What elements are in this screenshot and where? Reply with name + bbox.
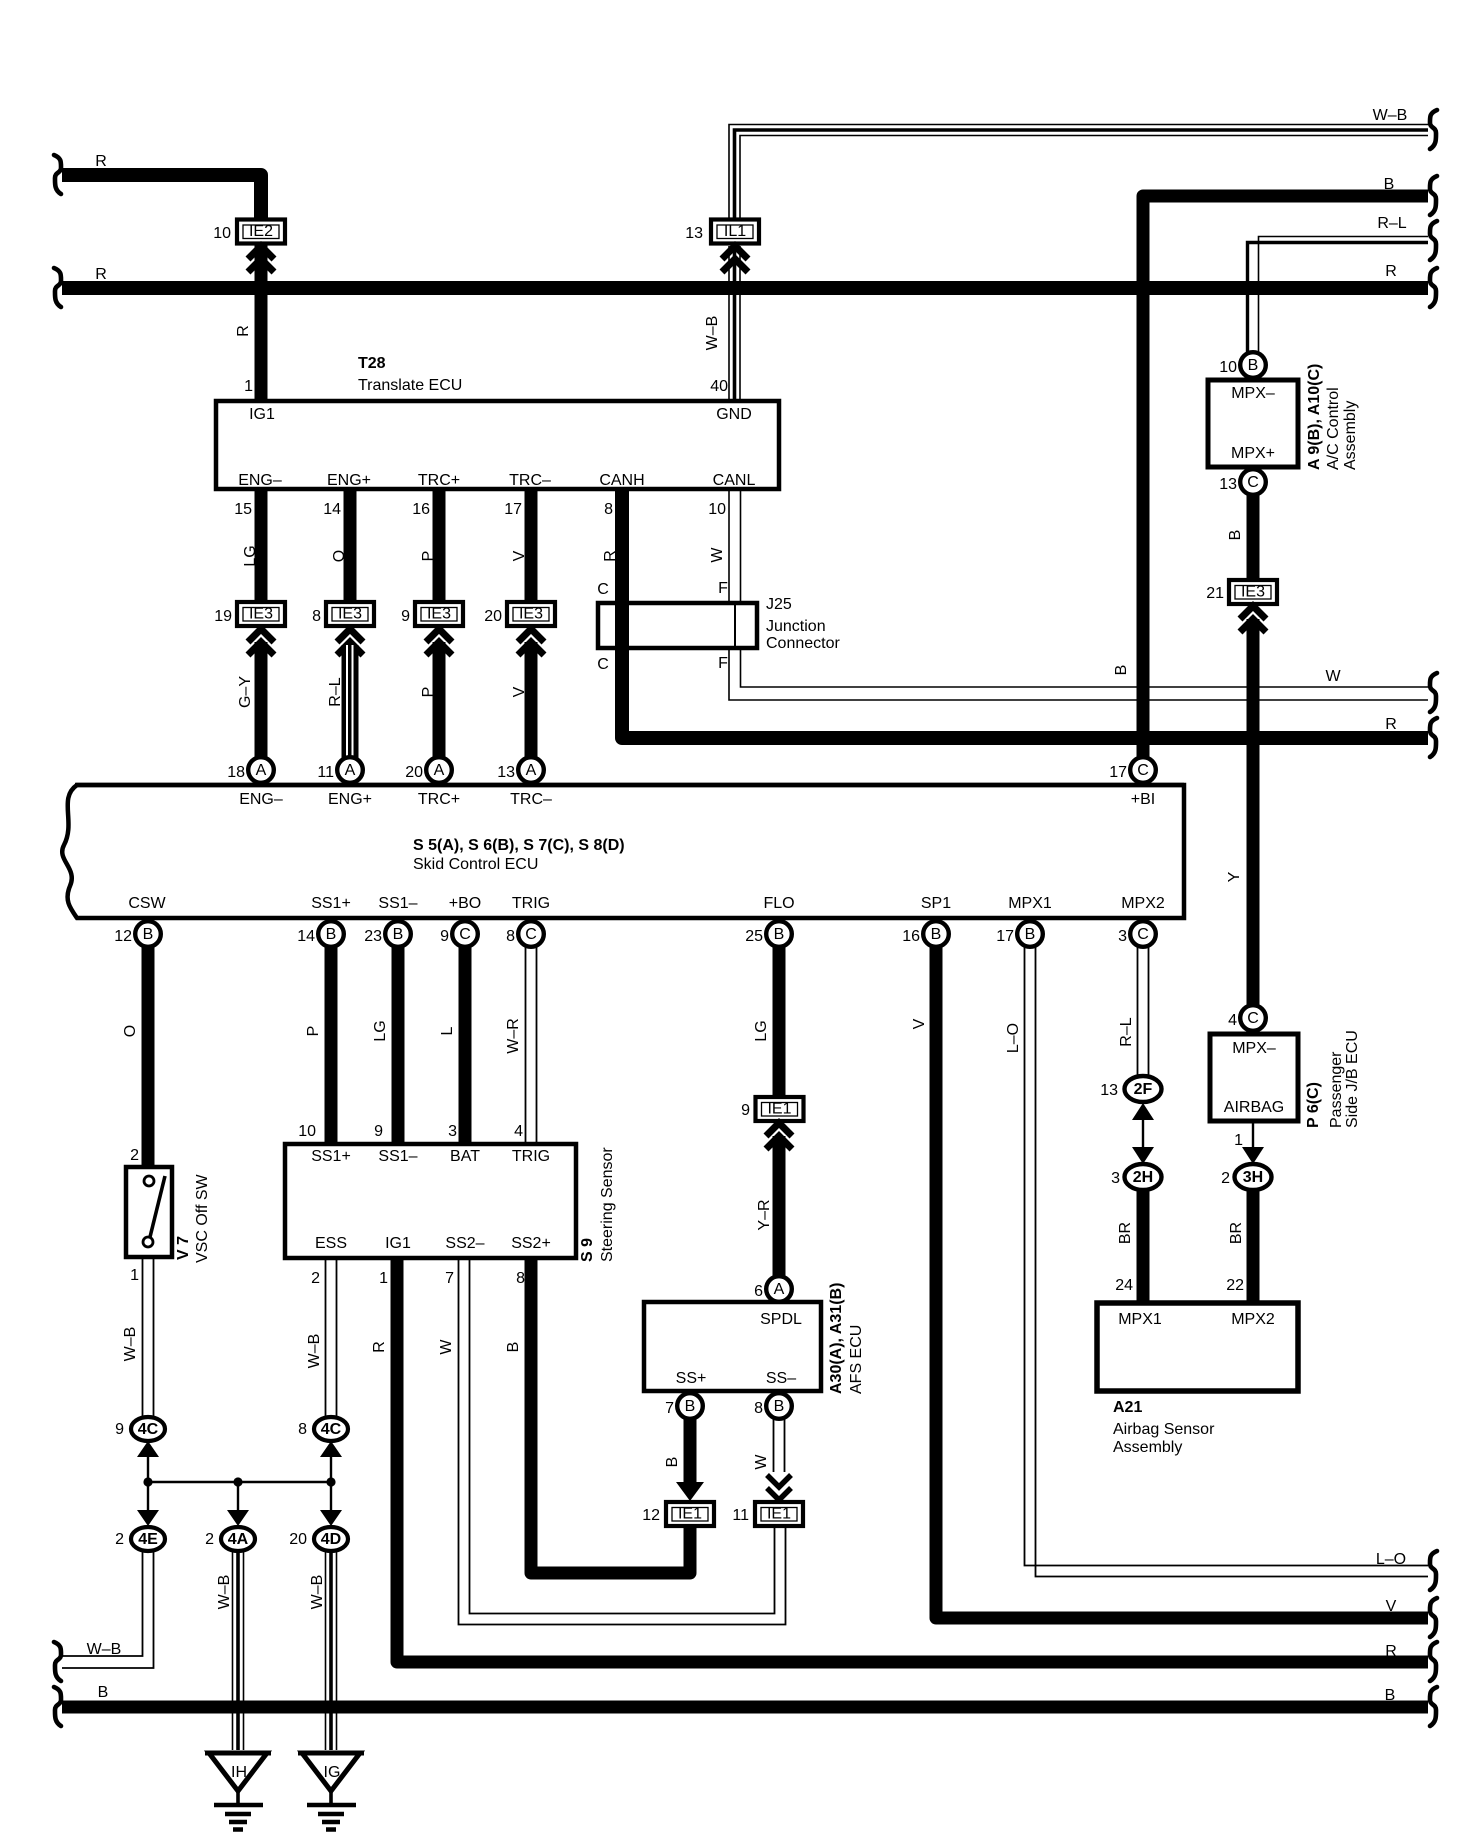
- arrow up into 4C-8: [320, 1441, 342, 1457]
- svg-text:B: B: [1384, 176, 1395, 193]
- svg-text:TRC+: TRC+: [418, 791, 460, 808]
- wire stub 2F to 2H: [1142, 1112, 1144, 1152]
- svg-text:4C: 4C: [321, 1421, 342, 1438]
- svg-text:4C: 4C: [138, 1421, 159, 1438]
- svg-text:9: 9: [440, 928, 449, 945]
- svg-text:2: 2: [1221, 1170, 1230, 1187]
- svg-text:Assembly: Assembly: [1113, 1439, 1182, 1456]
- svg-text:P: P: [305, 1026, 322, 1037]
- svg-text:C: C: [597, 656, 609, 673]
- svg-text:B: B: [1227, 530, 1244, 541]
- svg-text:Junction: Junction: [766, 618, 826, 635]
- wire stub 4C-8 to junction: [330, 1450, 332, 1482]
- svg-text:G–Y: G–Y: [237, 676, 254, 708]
- svg-text:V: V: [511, 686, 528, 697]
- brace right end W-B: [1430, 110, 1437, 149]
- brace right end R bottom: [1430, 1642, 1437, 1681]
- stub down to 4E: [147, 1482, 149, 1516]
- svg-text:MPX2: MPX2: [1231, 1311, 1275, 1328]
- ellipse connector 3 2H: [1111, 1164, 1161, 1190]
- wire B from A/C 13C to IE3 21: [1247, 495, 1260, 579]
- svg-text:1: 1: [130, 1267, 139, 1284]
- circle pin 18 A ENG-: [227, 757, 274, 783]
- circle pin 8 B SS-: [754, 1393, 792, 1419]
- svg-text:SS2+: SS2+: [511, 1235, 551, 1252]
- svg-text:Skid Control ECU: Skid Control ECU: [413, 856, 538, 873]
- A21 Airbag Sensor Assembly box: [1097, 1303, 1298, 1456]
- svg-text:4: 4: [514, 1123, 523, 1140]
- svg-text:12: 12: [114, 928, 132, 945]
- svg-text:R: R: [95, 153, 107, 170]
- svg-text:L–O: L–O: [1376, 1551, 1406, 1568]
- svg-text:B: B: [774, 1398, 785, 1415]
- svg-text:15: 15: [234, 501, 252, 518]
- svg-text:C: C: [597, 581, 609, 598]
- svg-text:LG: LG: [242, 545, 259, 566]
- svg-text:SS1+: SS1+: [311, 895, 351, 912]
- svg-text:CANH: CANH: [599, 472, 644, 489]
- wire L-O double MPX1 to right edge: [1025, 947, 1429, 1577]
- svg-text:LG: LG: [372, 1020, 389, 1041]
- brace right end R-L: [1430, 221, 1437, 260]
- svg-text:W–B: W–B: [309, 1575, 326, 1610]
- svg-text:W–B: W–B: [216, 1575, 233, 1610]
- svg-text:R–L: R–L: [1118, 1017, 1135, 1046]
- wire W-B double from 4E to left edge: [62, 1551, 154, 1668]
- svg-text:R–L: R–L: [1377, 215, 1406, 232]
- svg-text:P: P: [420, 551, 437, 562]
- svg-text:IH: IH: [231, 1764, 247, 1781]
- svg-text:O: O: [331, 550, 348, 562]
- wire stub 4C-9 to junction: [147, 1450, 149, 1482]
- svg-text:ESS: ESS: [315, 1235, 347, 1252]
- svg-text:B: B: [1385, 1687, 1396, 1704]
- svg-text:C: C: [1137, 762, 1149, 779]
- svg-text:14: 14: [323, 501, 341, 518]
- svg-text:Y–R: Y–R: [756, 1199, 773, 1230]
- svg-text:1: 1: [1234, 1132, 1243, 1149]
- circle pin 13 C A/C MPX+: [1219, 469, 1266, 495]
- svg-text:BR: BR: [1117, 1222, 1134, 1244]
- svg-text:8: 8: [754, 1400, 763, 1417]
- svg-text:TRIG: TRIG: [512, 1148, 550, 1165]
- svg-text:7: 7: [445, 1270, 454, 1287]
- svg-text:B: B: [685, 1398, 696, 1415]
- wire R from IE2 arrow to T28 pin 1: [255, 244, 268, 399]
- svg-text:IE3: IE3: [1241, 584, 1265, 601]
- wire R-L double MPX2 to 2F: [1138, 947, 1149, 1078]
- svg-text:SS1–: SS1–: [378, 895, 417, 912]
- svg-text:A/C Control: A/C Control: [1325, 387, 1342, 470]
- svg-text:B: B: [326, 926, 337, 943]
- svg-text:13: 13: [497, 764, 515, 781]
- svg-text:8: 8: [604, 501, 613, 518]
- wire LG ENG- T28 to IE3: [255, 489, 268, 602]
- svg-text:W: W: [1325, 668, 1341, 685]
- stub down to 4D: [330, 1482, 332, 1516]
- connector 9 IE1: [741, 1097, 803, 1121]
- wire W-B double ESS to 4C-8: [326, 1258, 337, 1417]
- svg-text:LG: LG: [753, 1020, 770, 1041]
- svg-text:C: C: [525, 926, 537, 943]
- wire W CANL double from J25 to right edge: [729, 648, 1428, 700]
- svg-text:8: 8: [506, 928, 515, 945]
- svg-text:IE1: IE1: [678, 1506, 702, 1523]
- junction wire horizontal: [148, 1481, 331, 1483]
- brace right end R CAN: [1430, 718, 1437, 757]
- svg-text:MPX1: MPX1: [1008, 895, 1052, 912]
- svg-text:B: B: [1113, 665, 1130, 676]
- svg-text:A21: A21: [1113, 1399, 1142, 1416]
- svg-text:O: O: [122, 1025, 139, 1037]
- connector 20 IE3 (TRC-): [484, 602, 555, 626]
- svg-text:ENG+: ENG+: [328, 791, 372, 808]
- svg-text:IG1: IG1: [249, 406, 275, 423]
- svg-text:R: R: [1385, 1643, 1397, 1660]
- junction dot right: [326, 1477, 335, 1486]
- svg-text:W: W: [753, 1454, 770, 1470]
- arrows into IE3 row: [248, 629, 274, 655]
- circle pin 20 A TRC+: [405, 757, 452, 783]
- connector 13 IL1: [685, 220, 759, 244]
- A/C Control Assembly box A9/A10: [1208, 364, 1359, 470]
- svg-text:B: B: [931, 926, 942, 943]
- ellipse connector 9 4C: [115, 1417, 165, 1441]
- brace right end L-O: [1430, 1551, 1437, 1590]
- ECU bottom circle 8 C TRIG: [506, 921, 544, 947]
- svg-text:BAT: BAT: [450, 1148, 480, 1165]
- svg-text:17: 17: [504, 501, 522, 518]
- svg-text:S 9: S 9: [579, 1238, 596, 1262]
- svg-text:8: 8: [298, 1421, 307, 1438]
- brace right end of R bus: [1430, 268, 1437, 307]
- wire V SP1 to right edge: [936, 947, 1428, 1618]
- svg-text:17: 17: [996, 928, 1014, 945]
- circle pin 10 B A/C MPX-: [1219, 352, 1266, 378]
- Skid Control ECU box S5-S8: [62, 785, 1184, 918]
- wire BR 3H to A21 MPX2: [1247, 1190, 1260, 1303]
- svg-text:Passenger: Passenger: [1328, 1051, 1345, 1128]
- wire W CANL double line T28 to J25: [729, 489, 741, 603]
- svg-text:A 9(B), A10(C): A 9(B), A10(C): [1306, 364, 1323, 470]
- circle pin 13 A TRC-: [497, 757, 544, 783]
- AFS ECU box A30/A31: [644, 1283, 865, 1394]
- svg-text:AIRBAG: AIRBAG: [1224, 1099, 1284, 1116]
- svg-text:3: 3: [1118, 928, 1127, 945]
- svg-text:SS1+: SS1+: [311, 1148, 351, 1165]
- svg-text:C: C: [459, 926, 471, 943]
- svg-text:ENG–: ENG–: [238, 472, 282, 489]
- svg-text:S 5(A), S 6(B), S 7(C), S 8(D): S 5(A), S 6(B), S 7(C), S 8(D): [413, 837, 625, 854]
- connector 8 IE3 (ENG+): [312, 602, 374, 626]
- svg-text:F: F: [718, 580, 728, 597]
- svg-text:2: 2: [311, 1270, 320, 1287]
- arrow down into 2H: [1132, 1147, 1154, 1164]
- svg-text:TRC–: TRC–: [509, 472, 551, 489]
- svg-text:4E: 4E: [138, 1531, 158, 1548]
- circle pin 4 C P6 MPX-: [1228, 1005, 1266, 1031]
- svg-text:T28: T28: [358, 355, 386, 372]
- svg-text:B: B: [1025, 926, 1036, 943]
- svg-text:IE3: IE3: [519, 606, 543, 623]
- wire B bus bottom: [62, 1701, 1428, 1714]
- wire W double SS2- to IE1 11: [459, 1258, 786, 1625]
- wire G-Y ENG- IE3 to circle 18A: [255, 642, 268, 758]
- svg-text:21: 21: [1206, 585, 1224, 602]
- arrow down into IE1 11: [767, 1475, 791, 1500]
- svg-text:SP1: SP1: [921, 895, 951, 912]
- wire W-B shielded 4D to ground IG: [326, 1551, 337, 1750]
- svg-text:IG1: IG1: [385, 1235, 411, 1252]
- wire O ENG+ T28 to IE3: [344, 489, 357, 602]
- wire Y-R IE1 9 to circle 6A: [773, 1136, 786, 1277]
- svg-text:16: 16: [412, 501, 430, 518]
- wire W-B shielded 4A to ground IH: [233, 1551, 244, 1750]
- svg-text:SS1–: SS1–: [378, 1148, 417, 1165]
- svg-text:W: W: [709, 547, 726, 563]
- svg-text:F: F: [718, 655, 728, 672]
- svg-text:ENG+: ENG+: [327, 472, 371, 489]
- svg-text:MPX+: MPX+: [1231, 445, 1275, 462]
- svg-text:CANL: CANL: [713, 472, 756, 489]
- svg-text:Side J/B ECU: Side J/B ECU: [1344, 1030, 1361, 1128]
- circle pin 11 A ENG+: [317, 757, 362, 783]
- T28 pin stubs: [255, 395, 268, 401]
- S9 Steering Sensor box: [285, 1144, 616, 1262]
- svg-text:A: A: [256, 762, 267, 779]
- svg-text:R: R: [371, 1341, 388, 1353]
- svg-text:1: 1: [244, 378, 253, 395]
- svg-text:9: 9: [741, 1102, 750, 1119]
- wire LG FLO to IE1 9: [773, 947, 786, 1098]
- wire L +BO to steering BAT: [459, 947, 472, 1144]
- svg-text:20: 20: [289, 1531, 307, 1548]
- svg-text:W: W: [438, 1339, 455, 1355]
- arrow down into 4A: [227, 1510, 249, 1526]
- svg-text:16: 16: [902, 928, 920, 945]
- svg-text:P 6(C): P 6(C): [1305, 1082, 1322, 1128]
- ECU bottom circle 17 B MPX1: [996, 921, 1043, 947]
- brace right end B: [1430, 176, 1437, 215]
- svg-text:IE3: IE3: [427, 606, 451, 623]
- svg-text:A: A: [774, 1281, 785, 1298]
- svg-text:13: 13: [685, 225, 703, 242]
- svg-text:24: 24: [1115, 1277, 1133, 1294]
- svg-text:V: V: [511, 550, 528, 561]
- svg-text:Y: Y: [1226, 871, 1243, 882]
- wire V TRC- IE3 to circle 13A: [525, 642, 538, 758]
- svg-text:R: R: [1385, 263, 1397, 280]
- brace left end of R bus: [54, 268, 61, 307]
- wire W-R double TRIG to steering: [526, 947, 537, 1144]
- connector 10 IE2: [213, 220, 285, 244]
- svg-text:+BI: +BI: [1131, 791, 1155, 808]
- svg-text:23: 23: [364, 928, 382, 945]
- junction dot middle: [233, 1477, 242, 1486]
- wire stub P6 to 3H: [1252, 1121, 1254, 1152]
- svg-text:CSW: CSW: [128, 895, 166, 912]
- wire LG SS1- to steering: [392, 947, 405, 1144]
- svg-text:W–B: W–B: [122, 1327, 139, 1362]
- svg-text:9: 9: [401, 608, 410, 625]
- brace right end B bus: [1430, 1687, 1437, 1726]
- circle pin 6 A SPDL: [754, 1276, 792, 1302]
- svg-text:B: B: [664, 1457, 681, 1468]
- wire P TRC+ IE3 to circle 20A: [433, 642, 446, 758]
- connector 9 IE3 (TRC+): [401, 602, 463, 626]
- svg-text:10: 10: [213, 225, 231, 242]
- arrow into IE2: [248, 246, 274, 272]
- wire P SS1+ to steering: [325, 947, 338, 1144]
- svg-text:8: 8: [312, 608, 321, 625]
- svg-text:4A: 4A: [228, 1531, 249, 1548]
- connector 21 IE3: [1206, 580, 1277, 604]
- svg-text:W–B: W–B: [306, 1334, 323, 1369]
- svg-text:P: P: [420, 687, 437, 698]
- svg-text:IL1: IL1: [724, 223, 746, 240]
- svg-text:W–B: W–B: [704, 316, 721, 351]
- V7 VSC Off SW box: [126, 1167, 211, 1263]
- arrow into IE3 21: [1240, 606, 1266, 632]
- arrow up into 4C-9: [137, 1441, 159, 1457]
- svg-text:40: 40: [710, 378, 728, 395]
- ellipse connector 2 4A: [205, 1527, 255, 1551]
- svg-text:L: L: [439, 1026, 456, 1035]
- svg-text:+BO: +BO: [449, 895, 481, 912]
- svg-text:10: 10: [298, 1123, 316, 1140]
- svg-text:A: A: [526, 762, 537, 779]
- svg-text:7: 7: [665, 1400, 674, 1417]
- svg-text:4D: 4D: [321, 1531, 341, 1548]
- svg-text:IE2: IE2: [249, 223, 273, 240]
- stub down to 4A: [237, 1482, 239, 1516]
- svg-text:3H: 3H: [1243, 1169, 1263, 1186]
- wire B SS2+ to IE1 12: [531, 1258, 690, 1573]
- svg-text:R: R: [1385, 716, 1397, 733]
- svg-text:R: R: [235, 325, 252, 337]
- svg-text:10: 10: [708, 501, 726, 518]
- circle pin 7 B SS+: [665, 1393, 703, 1419]
- svg-text:V: V: [1386, 1598, 1397, 1615]
- ECU bottom circle 14 B SS1+: [297, 921, 344, 947]
- svg-text:Steering Sensor: Steering Sensor: [599, 1147, 616, 1262]
- svg-text:3: 3: [448, 1123, 457, 1140]
- svg-text:IG: IG: [324, 1764, 341, 1781]
- svg-text:C: C: [1137, 926, 1149, 943]
- wire B top right to edge: [1143, 196, 1428, 760]
- svg-text:W–B: W–B: [1373, 107, 1408, 124]
- svg-text:GND: GND: [716, 406, 752, 423]
- svg-text:17: 17: [1109, 764, 1127, 781]
- arrow up into 2F: [1132, 1103, 1154, 1120]
- svg-text:TRIG: TRIG: [512, 895, 550, 912]
- wire W-B double V7 to 4C: [143, 1257, 154, 1417]
- wire R feed top-left to IE2: [62, 175, 261, 219]
- svg-text:9: 9: [374, 1123, 383, 1140]
- svg-text:13: 13: [1100, 1082, 1118, 1099]
- svg-text:AFS ECU: AFS ECU: [848, 1325, 865, 1394]
- svg-text:BR: BR: [1228, 1222, 1245, 1244]
- svg-text:TRC+: TRC+: [418, 472, 460, 489]
- svg-text:25: 25: [745, 928, 763, 945]
- brace left end B bus: [54, 1687, 61, 1726]
- svg-text:J25: J25: [766, 596, 792, 613]
- connector 12 IE1: [642, 1502, 714, 1526]
- arrow down into 4D: [320, 1510, 342, 1526]
- svg-text:IE3: IE3: [338, 606, 362, 623]
- svg-text:SS2–: SS2–: [445, 1235, 484, 1252]
- wire R bus horizontal: [62, 281, 1428, 295]
- svg-text:11: 11: [732, 1507, 749, 1524]
- wire P TRC+ T28 to IE3: [433, 489, 446, 602]
- brace left end W-B bottom: [54, 1642, 61, 1681]
- arrow into IL1: [722, 246, 748, 272]
- T28 Translate ECU box: [216, 355, 779, 489]
- steering pin stubs: [325, 1140, 338, 1146]
- svg-text:14: 14: [297, 928, 315, 945]
- svg-text:MPX2: MPX2: [1121, 895, 1165, 912]
- ECU bottom circle 9 C +BO: [440, 921, 478, 947]
- svg-text:MPX–: MPX–: [1231, 385, 1275, 402]
- svg-text:A: A: [434, 762, 445, 779]
- svg-text:V 7: V 7: [175, 1236, 192, 1260]
- svg-text:MPX–: MPX–: [1232, 1040, 1276, 1057]
- svg-text:19: 19: [214, 608, 232, 625]
- svg-text:ENG–: ENG–: [239, 791, 283, 808]
- svg-text:SS+: SS+: [676, 1370, 707, 1387]
- svg-text:MPX1: MPX1: [1118, 1311, 1162, 1328]
- wire R-L double from edge to circle 10(B): [1248, 237, 1429, 353]
- svg-text:4: 4: [1228, 1012, 1237, 1029]
- svg-text:Airbag Sensor: Airbag Sensor: [1113, 1421, 1215, 1438]
- svg-text:20: 20: [405, 764, 423, 781]
- ellipse connector 20 4D: [289, 1527, 348, 1551]
- junction dot left: [143, 1477, 152, 1486]
- ellipse connector 2 3H: [1221, 1164, 1271, 1190]
- svg-text:2F: 2F: [1134, 1081, 1153, 1098]
- ground IH: [205, 1753, 271, 1830]
- wire R-L striped ENG+ IE3 to circle 11A: [342, 645, 359, 758]
- connector 11 IE1: [732, 1502, 803, 1526]
- svg-text:11: 11: [317, 764, 334, 781]
- P6 Passenger Side J/B ECU box: [1210, 1030, 1361, 1128]
- ECU bottom circle 25 B FLO: [745, 921, 792, 947]
- svg-text:1: 1: [379, 1270, 388, 1287]
- svg-text:W–B: W–B: [87, 1641, 122, 1658]
- svg-text:10: 10: [1219, 359, 1237, 376]
- svg-text:2H: 2H: [1133, 1169, 1153, 1186]
- svg-text:3: 3: [1111, 1170, 1120, 1187]
- arrow down into 3H: [1242, 1147, 1264, 1164]
- ellipse connector 2 4E: [115, 1527, 165, 1551]
- ECU bottom circle 16 B SP1: [902, 921, 949, 947]
- svg-text:IE3: IE3: [249, 606, 273, 623]
- svg-text:A: A: [345, 762, 356, 779]
- svg-text:18: 18: [227, 764, 245, 781]
- svg-text:SS–: SS–: [766, 1370, 796, 1387]
- svg-text:13: 13: [1219, 476, 1237, 493]
- wire W-B shielded from IL1 up and right to edge: [729, 125, 1428, 219]
- ground IG: [298, 1753, 364, 1830]
- ECU bottom circle 23 B SS1-: [364, 921, 411, 947]
- svg-text:Connector: Connector: [766, 635, 840, 652]
- svg-text:SPDL: SPDL: [760, 1311, 802, 1328]
- wire B SS+ to IE1 12: [684, 1419, 697, 1483]
- wire V TRC- T28 to IE3: [525, 489, 538, 602]
- svg-text:B: B: [393, 926, 404, 943]
- svg-text:9: 9: [115, 1421, 124, 1438]
- arrow into IE1 9: [766, 1123, 792, 1149]
